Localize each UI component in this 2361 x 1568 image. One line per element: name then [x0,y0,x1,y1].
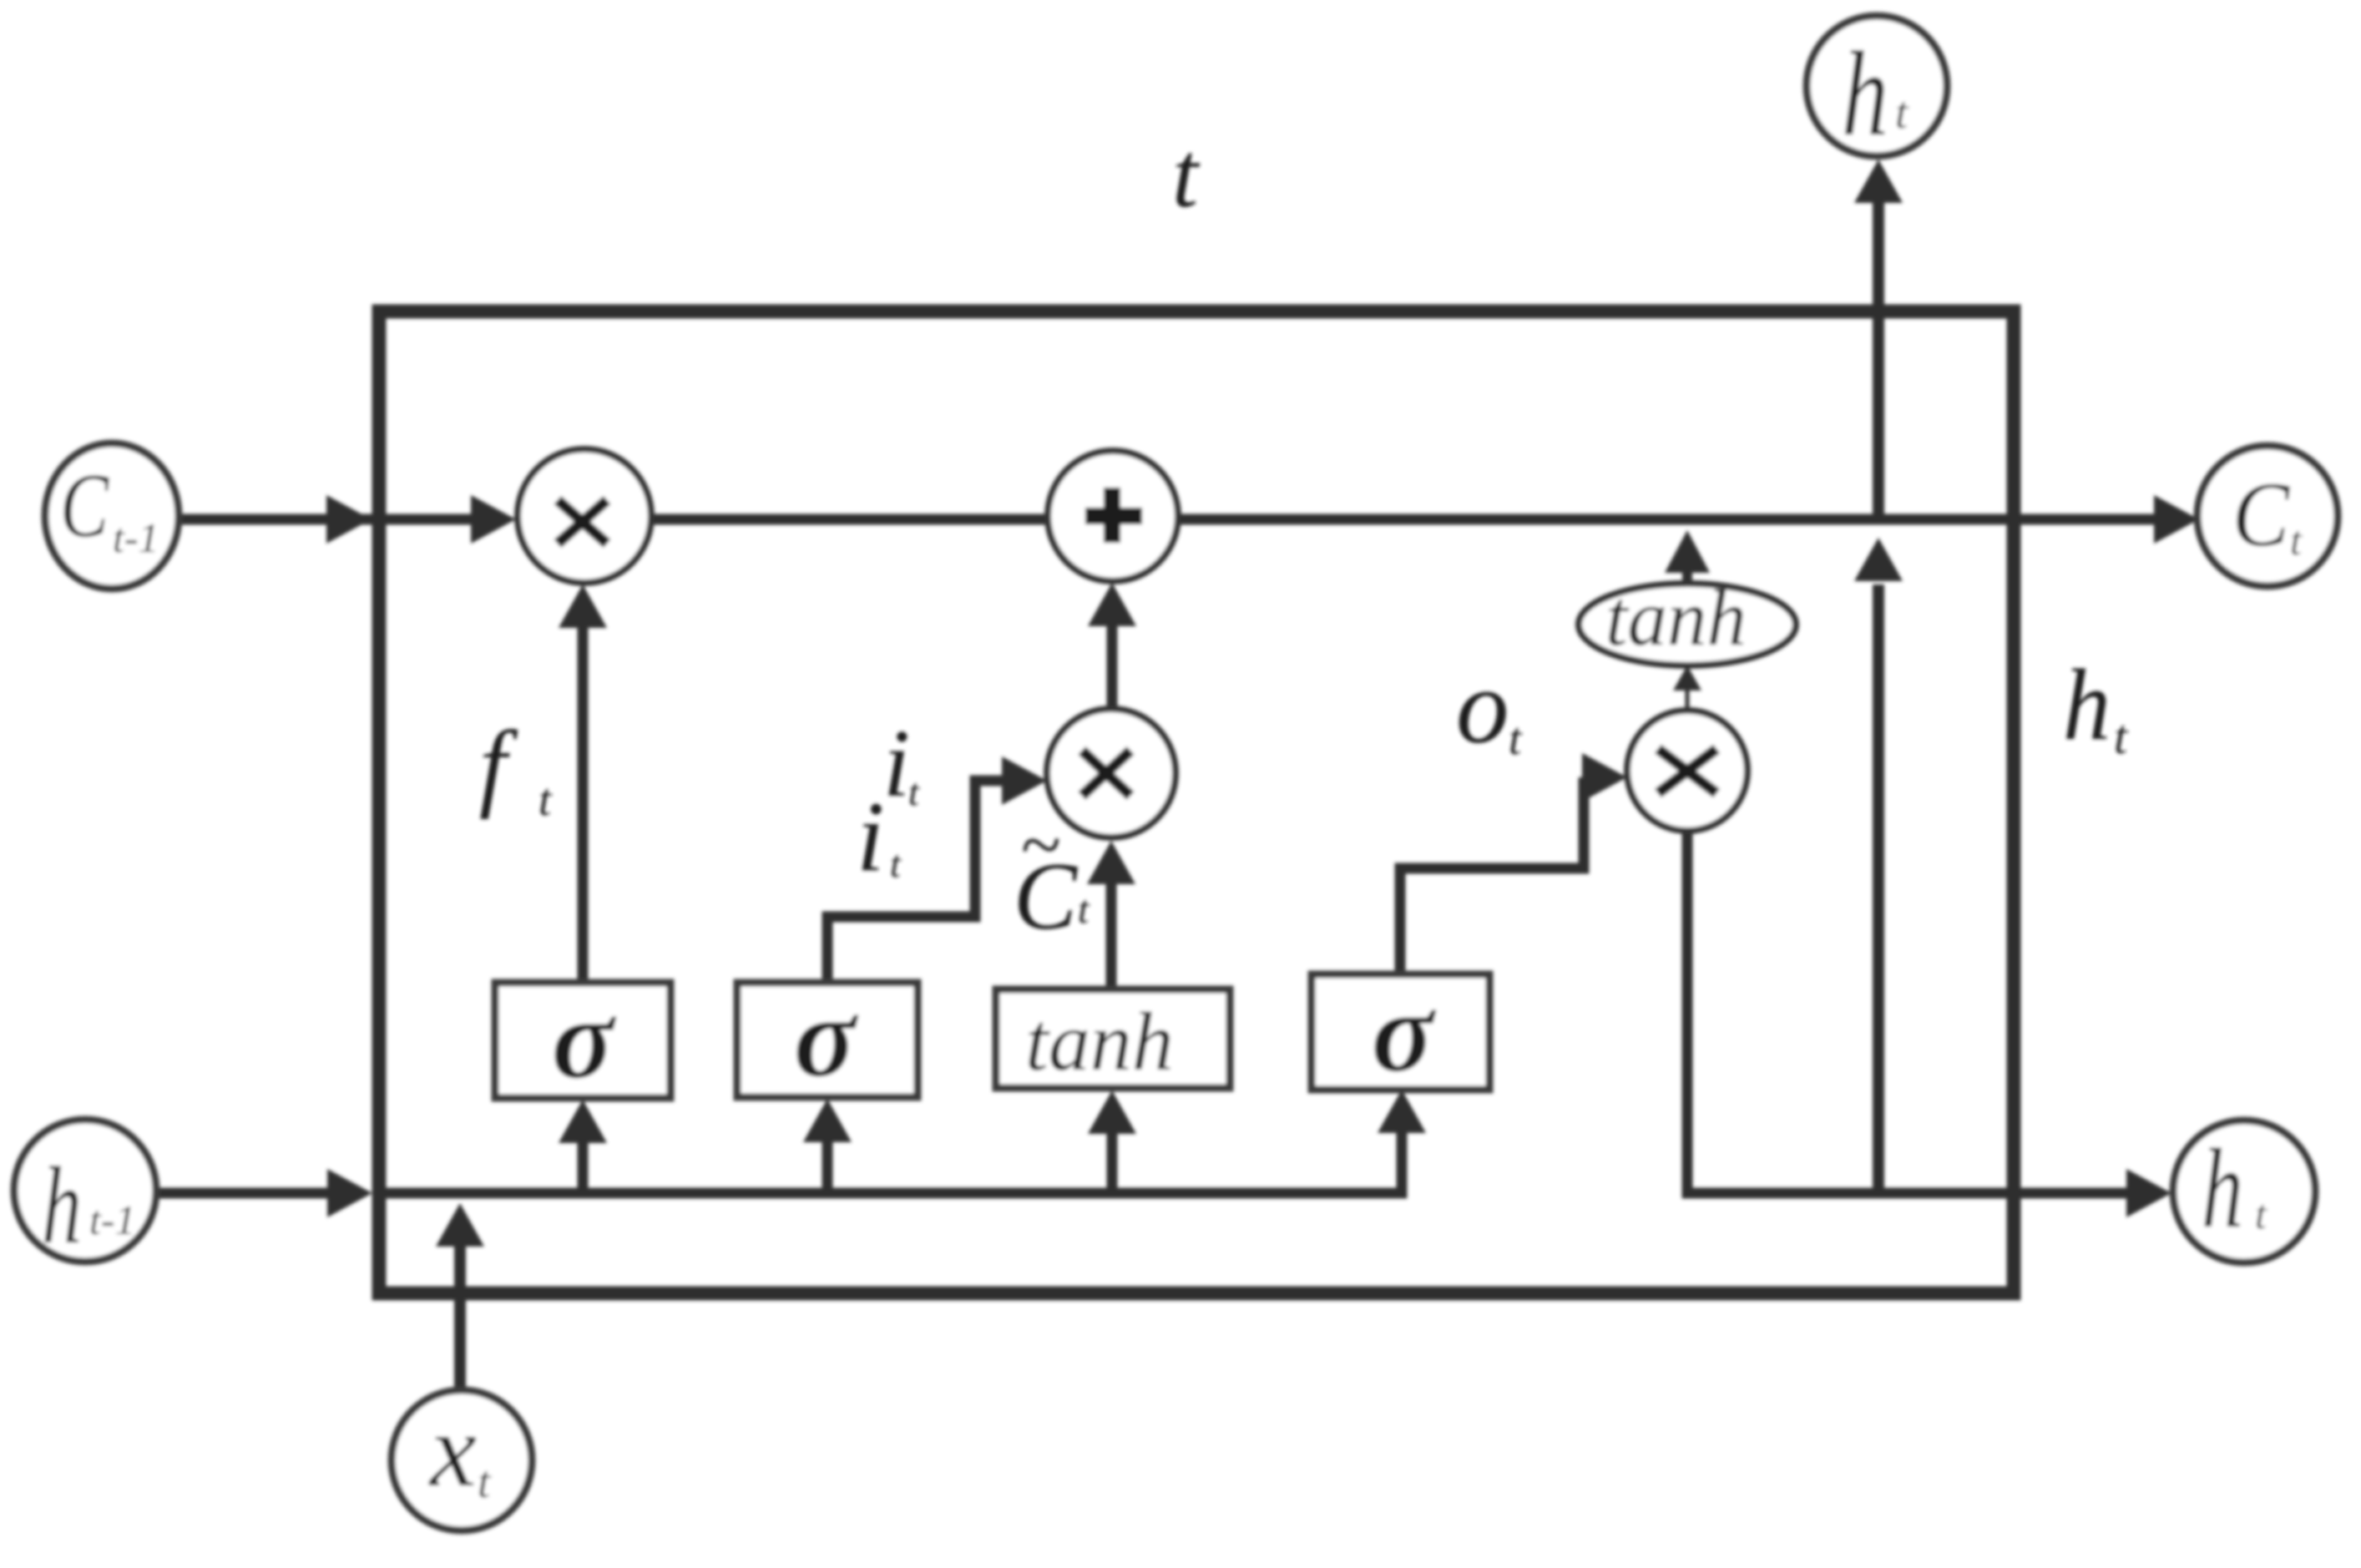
node h_t top [1807,16,1947,161]
wire input gate i_t step wire [827,756,1047,983]
label o_t [1456,649,1523,766]
wire sigma1 input arrow [559,1100,607,1188]
svg-text:t: t [2114,710,2129,764]
svg-text:σ: σ [794,973,859,1100]
wire tanh ellipse to cell line arrow [1665,530,1710,584]
wire x_t input arrow [436,1203,484,1392]
svg-text:t: t [908,771,920,813]
op mult3 output product circle [1627,711,1747,831]
label i_t upper [883,711,920,817]
gate sigma2 box [737,973,918,1100]
label f_t [479,711,553,825]
svg-text:t-1: t-1 [89,1196,136,1243]
svg-text:h: h [2202,1126,2243,1252]
gate sigma3 box [1312,968,1489,1095]
svg-text:t: t [2255,1191,2267,1237]
svg-text:t: t [1509,713,1523,764]
op plus circle [1048,451,1178,581]
svg-text:t: t [2290,517,2303,564]
node C_{t-1} [45,443,179,589]
wire tanh-box input arrow [1088,1090,1136,1188]
label t timestep [1172,124,1201,227]
svg-text:t: t [1895,87,1909,138]
svg-text:t: t [478,1456,492,1507]
svg-text:t: t [1078,888,1090,932]
node x_t [392,1390,532,1530]
label h_t inner [2063,649,2129,764]
wire sigma2 input arrow [803,1099,852,1188]
wire cell-state line left segment [180,495,516,544]
wire candidate C~ arrow [1087,841,1135,989]
wire h_t vertical lower segment [1854,538,1903,1193]
wire output path to h_t [1687,831,2171,1217]
svg-text:i: i [883,711,910,817]
svg-text:~: ~ [1020,805,1060,886]
outer cell box [379,311,2014,1293]
wire cell-state line right segment [1176,495,2199,544]
svg-text:t-1: t-1 [113,514,159,561]
svg-text:t: t [890,842,902,885]
op mult1 forget product circle [518,449,651,583]
svg-text:C: C [2232,463,2291,565]
label i_t lower [857,781,902,892]
svg-text:x: x [428,1393,477,1509]
wire hidden-state line [154,1090,1426,1217]
gate sigma1 box [495,974,670,1102]
svg-text:i: i [857,781,884,892]
node h_t bottom [2173,1120,2315,1262]
wire mult2 to plus arrow [1088,583,1136,709]
svg-text:σ: σ [1372,968,1437,1095]
wire cell-state line mid segment [651,514,1049,525]
gate tanh box [996,989,1230,1088]
svg-text:tanh: tanh [1605,574,1747,662]
svg-text:h: h [2063,649,2111,761]
op mult2 input product circle [1047,709,1175,837]
wire mult3 to tanh ellipse thin arrow [1673,665,1701,711]
svg-text:σ: σ [552,974,617,1102]
wire forget gate f_t arrow [559,584,607,983]
wire h_t vertical upper segment [1854,159,1903,516]
svg-text:h: h [42,1144,82,1267]
svg-text:o: o [1456,649,1509,766]
svg-text:t: t [1172,124,1201,227]
svg-text:tanh: tanh [1025,995,1174,1088]
wire output gate o_t step wire [1400,753,1627,974]
node h_{t-1} [14,1120,156,1267]
node C_t [2197,446,2338,586]
svg-text:C: C [60,455,109,556]
svg-text:h: h [1842,28,1888,161]
svg-text:t: t [538,774,553,825]
label C~_t candidate [1014,805,1090,949]
op tanh ellipse [1579,574,1796,665]
